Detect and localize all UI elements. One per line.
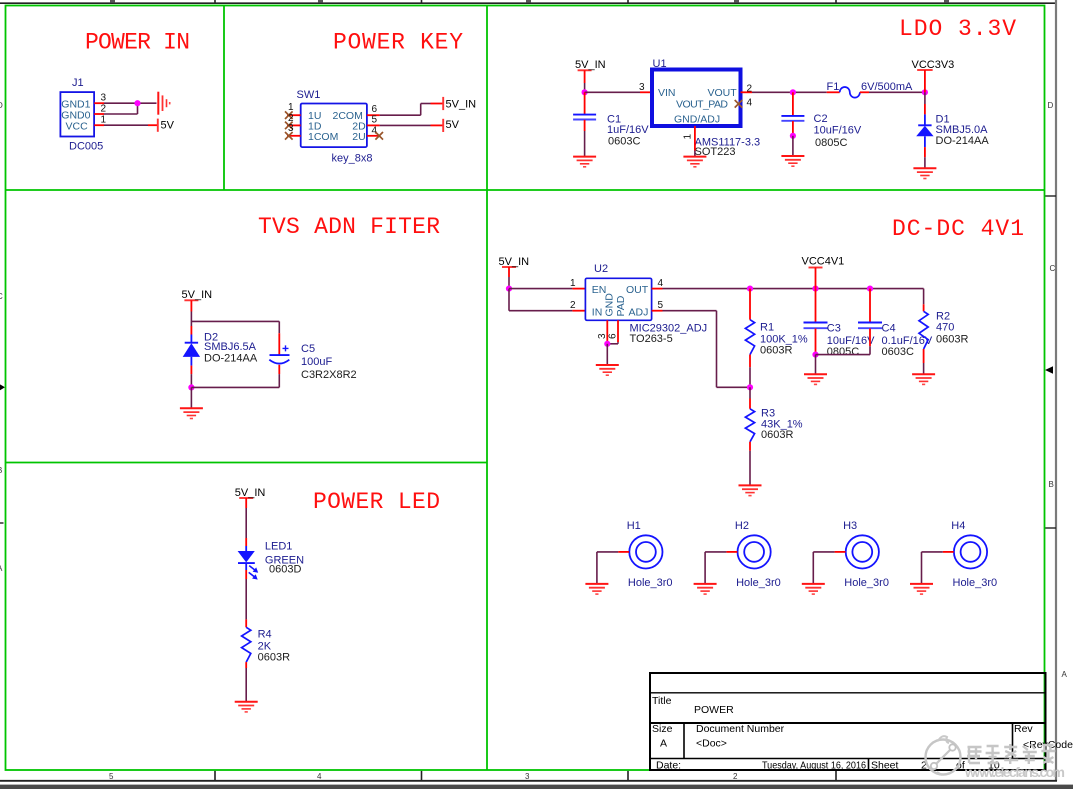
svg-text:0603R: 0603R (936, 334, 968, 346)
svg-text:0603C: 0603C (608, 135, 640, 147)
svg-text:Rev: Rev (1014, 723, 1033, 735)
svg-text:1uF/16V: 1uF/16V (607, 124, 649, 136)
power symbol 5V_IN (POWER KEY) (442, 97, 444, 110)
svg-text:VCC: VCC (66, 120, 89, 132)
svg-text:SW1: SW1 (297, 89, 321, 101)
ground symbol POWER IN (158, 92, 169, 115)
svg-text:C5: C5 (301, 343, 315, 355)
svg-text:B: B (0, 466, 2, 475)
svg-text:3: 3 (101, 93, 107, 104)
svg-text:5: 5 (658, 300, 664, 311)
wire J1 pin1 to 5V (104, 124, 158, 126)
resistor R2 470 (919, 304, 968, 374)
svg-text:key_8x8: key_8x8 (332, 153, 373, 165)
mounting hole H3 (843, 520, 889, 589)
svg-text:100uF: 100uF (301, 356, 332, 368)
svg-text:R4: R4 (258, 629, 272, 641)
section divider horizontal y462 (6, 462, 488, 464)
svg-text:A: A (1062, 670, 1068, 679)
capacitor C1 (573, 92, 649, 156)
svg-text:C2: C2 (814, 113, 828, 125)
regulator U2 MIC29302_ADJ (585, 263, 707, 345)
svg-text:10uF/16V: 10uF/16V (814, 125, 862, 137)
svg-text:Sheet: Sheet (871, 759, 899, 771)
wire node to U1 VIN (585, 91, 652, 93)
J1 pin 1 (94, 124, 104, 126)
svg-text:A: A (660, 738, 667, 750)
fuse F1 (827, 81, 870, 98)
svg-text:D: D (1048, 101, 1054, 110)
svg-text:5: 5 (372, 114, 378, 125)
power symbol 5V_IN (LED) (239, 497, 253, 499)
wire node to U2 EN (509, 288, 585, 290)
ground symbol R2 (912, 374, 935, 384)
svg-text:2: 2 (101, 104, 107, 115)
svg-text:4: 4 (747, 98, 753, 109)
svg-text:B: B (1049, 480, 1054, 489)
svg-text:Hole_3r0: Hole_3r0 (736, 577, 781, 589)
svg-text:GND: GND (604, 293, 616, 317)
ground symbol U2 (596, 365, 619, 375)
no-connect X U1 VOUT_PAD (735, 100, 743, 108)
svg-text:C4: C4 (882, 323, 896, 335)
svg-text:6V/500mA: 6V/500mA (861, 81, 913, 93)
svg-text:Title: Title (652, 695, 672, 707)
wire D2 node to ground (190, 387, 192, 408)
wire U2 OUT rail (652, 288, 924, 290)
power symbol 5V (POWER KEY) (442, 119, 444, 132)
power symbol 5V_IN (LDO) (578, 69, 592, 71)
svg-text:1: 1 (101, 115, 107, 126)
svg-text:POWER KEY: POWER KEY (333, 30, 463, 56)
svg-text:VCC4V1: VCC4V1 (802, 256, 845, 268)
svg-text:2U: 2U (352, 131, 365, 143)
svg-text:DO-214AA: DO-214AA (204, 353, 258, 365)
svg-text:F1: F1 (827, 81, 840, 93)
ground symbol D2 (180, 408, 203, 418)
svg-text:R1: R1 (760, 322, 774, 334)
SW1 pin 3 (287, 135, 301, 137)
capacitor C2 (781, 92, 861, 149)
junction C2 bottom (790, 133, 796, 139)
svg-text:J1: J1 (72, 77, 84, 89)
wire H3 to ground (813, 552, 845, 584)
wire LED1 to R4 (245, 563, 247, 619)
junction C3 bottom (812, 352, 818, 358)
svg-text:H2: H2 (735, 520, 749, 532)
svg-text:4: 4 (317, 772, 322, 781)
svg-text:5V_IN: 5V_IN (446, 98, 477, 110)
svg-text:PAD: PAD (615, 295, 627, 316)
wire C2 to ground (792, 136, 794, 156)
svg-text:5V_IN: 5V_IN (182, 289, 213, 301)
svg-text:SMBJ6.5A: SMBJ6.5A (204, 341, 257, 353)
svg-text:OUT: OUT (626, 284, 649, 296)
junction 5V_IN EN/IN (506, 286, 512, 292)
svg-text:U1: U1 (653, 58, 667, 70)
mounting hole H2 (735, 520, 781, 589)
wire H4 to ground (922, 552, 954, 584)
svg-text:5V: 5V (161, 120, 175, 132)
svg-text:DC-DC 4V1: DC-DC 4V1 (892, 216, 1024, 242)
svg-text:Size: Size (652, 723, 673, 735)
wire H2 to ground (705, 552, 737, 584)
svg-text:Date:: Date: (656, 759, 681, 771)
mounting hole H4 (951, 520, 997, 589)
ground symbol U1 (683, 157, 706, 167)
svg-text:3: 3 (639, 82, 645, 93)
J1 pin 3 (94, 102, 104, 104)
no-connect X SW1 pin1 (285, 111, 293, 119)
svg-text:LDO 3.3V: LDO 3.3V (899, 16, 1016, 42)
svg-text:4: 4 (658, 278, 664, 289)
SW1 pin 5 (367, 124, 380, 126)
power symbol 5V_IN (DC-DC) (502, 266, 516, 268)
svg-text:DO-214AA: DO-214AA (936, 135, 990, 147)
svg-text:C3R2X8R2: C3R2X8R2 (301, 369, 357, 381)
svg-text:10uF/16V: 10uF/16V (827, 335, 875, 347)
svg-text:U2: U2 (594, 263, 608, 275)
SW1 pin 6 (367, 114, 380, 116)
svg-text:1: 1 (683, 134, 694, 140)
junction rail C3/VCC4V1 (812, 286, 818, 292)
svg-text:Hole_3r0: Hole_3r0 (844, 577, 889, 589)
connector J1 (60, 77, 103, 152)
junction C2 top (790, 89, 796, 95)
LED LED1 GREEN (238, 541, 304, 580)
svg-text:D: D (0, 101, 3, 110)
ground symbol C2 (781, 156, 804, 166)
svg-text:GND/ADJ: GND/ADJ (674, 114, 720, 126)
junction D2 / C5 bottom (188, 384, 194, 390)
wire F1 to VCC3V3 node (869, 91, 925, 93)
no-connect X SW1 pin2 (285, 122, 293, 130)
ground symbol R3 (739, 485, 762, 495)
SW1 pin 4 (367, 135, 380, 137)
svg-text:ADJ: ADJ (629, 306, 649, 318)
ground symbol H2 (694, 584, 717, 594)
svg-text:Tuesday, August 16, 2016: Tuesday, August 16, 2016 (762, 759, 866, 771)
regulator U1 AMS1117-3.3 (652, 58, 760, 158)
svg-text:4: 4 (372, 125, 378, 136)
mounting hole H1 (627, 520, 673, 589)
ground symbol R4 (235, 702, 258, 712)
svg-text:0603D: 0603D (269, 563, 301, 575)
svg-text:6: 6 (608, 333, 619, 339)
junction rail R1 (747, 286, 753, 292)
junction U2 GND (604, 341, 610, 347)
J1 pin 2 (94, 113, 104, 115)
resistor R3 43K (745, 387, 802, 485)
junction rail C4 (867, 286, 873, 292)
no-connect X SW1 pin4 (375, 132, 383, 140)
svg-text:2: 2 (733, 772, 738, 781)
ground symbol D1 (913, 168, 936, 178)
U2 OUT corner to R2 (923, 289, 925, 305)
svg-text:3: 3 (597, 333, 608, 339)
switch SW1 (297, 89, 373, 165)
svg-text:TO263-5: TO263-5 (630, 333, 673, 345)
wire C5 bottom to D2 bottom (191, 386, 279, 388)
watermark characters (964, 744, 1065, 780)
wire C3 to ground (815, 355, 817, 375)
svg-text:Hole_3r0: Hole_3r0 (628, 577, 673, 589)
junction feedback node R1/R3 (747, 384, 753, 390)
section divider horizontal y190 (6, 189, 1045, 191)
diode D1 SMBJ5.0A (916, 92, 989, 168)
U1 GND pin to ground (694, 126, 696, 157)
svg-text:0805C: 0805C (815, 137, 847, 149)
ground symbol H1 (585, 584, 608, 594)
wire node to U2 IN (509, 289, 585, 311)
wire 5V_IN to U2 EN node (508, 267, 510, 289)
svg-text:VOUT_PAD: VOUT_PAD (676, 99, 728, 111)
ground symbol C3 (804, 374, 827, 384)
wire 5V_IN to LED1 (245, 498, 247, 552)
ground symbol C1 (573, 157, 596, 167)
SW1 pin 2 (287, 124, 301, 126)
ground symbol H4 (910, 584, 933, 594)
U2 GND PAD pins to ground (607, 320, 618, 344)
capacitor C4 (816, 289, 933, 359)
svg-text:1: 1 (570, 278, 576, 289)
section divider vertical x224 (223, 6, 225, 191)
svg-text:5V_IN: 5V_IN (575, 59, 606, 71)
watermark logo (926, 736, 961, 775)
title block (650, 673, 1073, 771)
svg-text:1COM: 1COM (308, 131, 338, 143)
svg-text:C: C (1050, 264, 1056, 273)
svg-text:<Doc>: <Doc> (696, 738, 727, 750)
power symbol VCC4V1 (809, 268, 823, 289)
SW1 pin 1 (287, 114, 301, 116)
svg-text:TVS ADN FITER: TVS ADN FITER (258, 214, 440, 240)
ground symbol H3 (802, 584, 825, 594)
svg-text:1: 1 (288, 102, 294, 113)
wire J1 pin2 up to GND net (104, 103, 138, 114)
junction VCC3V3 / D1 (922, 89, 928, 95)
svg-text:5V: 5V (446, 119, 460, 131)
svg-text:H4: H4 (951, 520, 965, 532)
svg-text:0603R: 0603R (258, 652, 290, 664)
svg-text:IN: IN (592, 306, 603, 318)
svg-text:0603R: 0603R (761, 429, 793, 441)
junction J1 GND net (134, 100, 140, 106)
capacitor C3 (804, 289, 876, 359)
wire J1 pin3 to ground (104, 102, 157, 104)
wire U1 VOUT to F1 (741, 91, 827, 93)
svg-text:C: C (0, 292, 3, 301)
wire 5V_IN down to node (LDO) (584, 70, 586, 92)
svg-text:3: 3 (525, 772, 530, 781)
power symbol 5V (POWER IN) (157, 119, 159, 132)
wire U2 ADJ to feedback node (652, 311, 750, 388)
power symbol VCC3V3 (917, 70, 933, 92)
wire U2 GND to ground (606, 344, 608, 365)
svg-text:5: 5 (109, 772, 114, 781)
svg-text:POWER: POWER (694, 704, 734, 716)
svg-text:Document Number: Document Number (696, 723, 785, 735)
svg-text:470: 470 (936, 322, 954, 334)
svg-text:5V_IN: 5V_IN (235, 487, 266, 499)
wire 5V_IN to D2/C5 top node (191, 300, 279, 333)
svg-text:POWER LED: POWER LED (313, 489, 440, 515)
svg-text:VOUT: VOUT (708, 87, 738, 99)
section divider vertical x487 (486, 6, 488, 771)
wire SW1 pin6 to 5V_IN (380, 104, 444, 116)
svg-text:0603C: 0603C (882, 346, 914, 358)
svg-text:5V_IN: 5V_IN (499, 256, 530, 268)
svg-text:www.elecfans.com: www.elecfans.com (964, 764, 1065, 780)
svg-text:VCC3V3: VCC3V3 (912, 59, 955, 71)
no-connect X SW1 pin3 (285, 132, 293, 140)
svg-text:0603R: 0603R (760, 345, 792, 357)
svg-text:0805C: 0805C (827, 346, 859, 358)
svg-text:POWER IN: POWER IN (85, 30, 190, 56)
svg-text:2: 2 (570, 300, 576, 311)
svg-text:VIN: VIN (658, 87, 676, 99)
svg-text:DC005: DC005 (69, 140, 103, 152)
svg-text:C3: C3 (827, 323, 841, 335)
resistor R4 2K (242, 619, 290, 701)
svg-text:H3: H3 (843, 520, 857, 532)
diode D2 SMBJ6.5A (183, 326, 258, 387)
svg-text:LED1: LED1 (265, 541, 293, 553)
svg-text:H1: H1 (627, 520, 641, 532)
junction 5V_IN / C1 (LDO) (582, 89, 588, 95)
power symbol 5V_IN (TVS) (184, 299, 198, 301)
wire H1 to ground (597, 552, 629, 584)
capacitor C5 (polarized) (269, 333, 356, 387)
resistor R1 100K (745, 289, 808, 388)
svg-text:Hole_3r0: Hole_3r0 (953, 577, 998, 589)
wire SW1 pin5 to 5V (380, 124, 444, 126)
